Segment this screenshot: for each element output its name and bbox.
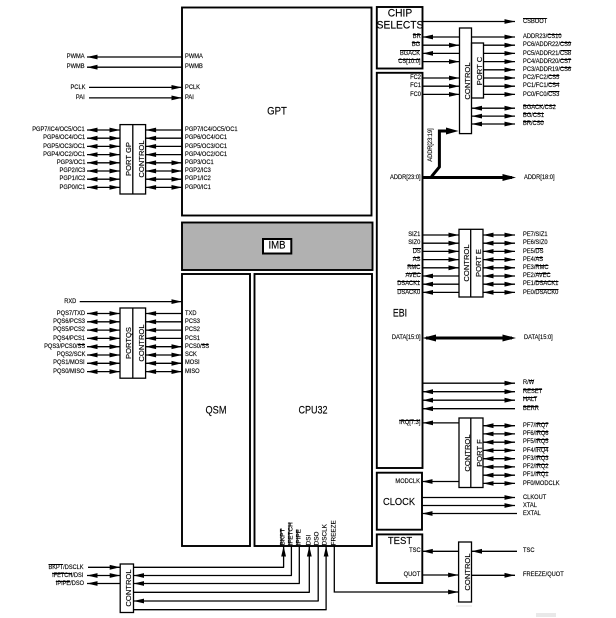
pin label PQS4/PCS1 (internal) <box>185 334 200 344</box>
pin label PF5/IRQ5 <box>523 437 548 447</box>
pin label PWMA (external) <box>67 52 85 62</box>
pin label IFETCH (CPU32, rotated) <box>288 522 294 545</box>
wire DSACK0 (EBI to control) <box>423 291 460 293</box>
wire PQS6/PCS3 (QSM segment) <box>146 321 182 323</box>
wire XTAL <box>422 505 515 507</box>
control box (port C) <box>460 28 472 134</box>
rotated label CONTROL (port GP) <box>138 141 146 178</box>
wire PQS7/TXD (external segment) <box>87 313 120 315</box>
wire PGP1/IC2 (GPT segment) <box>146 178 182 180</box>
pin label PCLK (external) <box>70 83 85 93</box>
pin label PGP0/IC1 (external) <box>59 183 85 193</box>
wire FC1 <box>423 85 460 87</box>
wire BKPT (vertical drop) <box>283 546 285 567</box>
rotated label PORT C <box>476 56 484 84</box>
wire PGP4/OC2/OC1 (GPT segment) <box>146 154 182 156</box>
bus label ADDR[23:19] (vertical) <box>427 129 434 162</box>
block EBI <box>377 73 423 468</box>
wire PGP3/OC1 (external segment) <box>87 162 120 164</box>
wire TSC (external) <box>472 550 518 552</box>
wire PF4/IRQ4 (external) <box>483 449 515 451</box>
pin label PQS0/MISO (external) <box>53 367 85 377</box>
rotated label CONTROL (port QS) <box>138 325 146 362</box>
pin label IPIPE (CPU32, rotated) <box>296 529 302 545</box>
wire PGP2/IC3 (external segment) <box>87 170 120 172</box>
label EBI <box>393 308 407 320</box>
wire PGP0/IC1 (external segment) <box>87 186 120 188</box>
wire DSO (horizontal run) <box>134 600 319 602</box>
pin label PGP5/OC3/OC1 (external) <box>43 142 85 152</box>
wire DSI (vertical drop) <box>308 546 310 592</box>
wire PF6/IRQ6 (external) <box>483 433 515 435</box>
wire PQS4/PCS1 (external segment) <box>87 337 120 339</box>
wire CSBOOT <box>423 21 516 23</box>
pin label PF2/IRQ2 <box>523 462 548 472</box>
pin label BERR <box>523 404 539 414</box>
wire BKPT/DSCLK (external) <box>88 566 120 568</box>
pin label PC6/ADDR22/CS9 <box>523 40 571 50</box>
wire BR (chip selects to control) <box>423 36 460 38</box>
rotated label PORT E <box>476 249 484 277</box>
wire DS (EBI to control) <box>423 250 460 252</box>
wire FC2 <box>423 77 460 79</box>
pin label PQS4/PCS1 (external) <box>53 334 85 344</box>
pin label PC0/FC0/CS3 <box>523 90 559 100</box>
wire PQS3/PCS0/SS (external segment) <box>87 346 120 348</box>
wire PC1/FC1/CS4 (output) <box>484 85 516 87</box>
pin label AVEC (internal) <box>405 271 420 281</box>
wire PQS5/PCS2 (QSM segment) <box>146 329 182 331</box>
wire HALT <box>423 399 516 401</box>
pin label CSBOOT <box>523 17 547 27</box>
wire PQS2/SCK (external segment) <box>87 354 120 356</box>
label GPT <box>267 105 287 117</box>
pin label PQS3/PCS0/SS (external) <box>44 342 85 352</box>
label CPU32 <box>298 404 327 416</box>
pin label R/W <box>523 378 534 388</box>
pin label SIZ0 (internal) <box>408 238 420 248</box>
rotated label PORT QS <box>125 327 133 359</box>
wire PE0/DSACK0 (external) <box>483 291 515 293</box>
wire PC4/ADDR20/CS7 (output) <box>484 61 516 63</box>
pin label HALT <box>523 395 537 405</box>
wire PE1/DSACK1 (external) <box>483 283 515 285</box>
wire PQS0/MISO (external segment) <box>87 371 120 373</box>
pin label PWMA (internal) <box>185 52 203 62</box>
wire AS (EBI to control) <box>423 259 460 261</box>
block CPU32 <box>255 274 373 546</box>
wire PQS3/PCS0/SS (QSM segment) <box>146 346 182 348</box>
pin label IPIPE/DSO <box>55 579 83 589</box>
bus ADDR[23:0] (thick) <box>423 176 513 179</box>
wire PQS5/PCS2 (external segment) <box>87 329 120 331</box>
wire DSCLK (vertical drop) <box>325 546 327 610</box>
pin label PE5/DS <box>523 247 543 257</box>
rotated label CONTROL (port E) <box>464 245 472 282</box>
pin label PQS0/MISO (internal) <box>185 367 200 377</box>
pin label PF0/MODCLK <box>523 479 560 489</box>
block CLOCK <box>377 473 422 530</box>
label CHIP <box>388 7 412 19</box>
wire ADDR23/CS10 (output) <box>472 36 516 38</box>
pin label PE7/SIZ1 <box>523 230 548 240</box>
wire BGACK/CS2 <box>472 107 516 109</box>
pin label PGP7/IC4/OC5/OC1 (external) <box>32 125 85 135</box>
wire BR/CS0 <box>472 123 516 125</box>
pin label PC1/FC1/CS4 <box>523 81 559 91</box>
pin label PE1/DSACK1 <box>523 279 558 289</box>
rotated label CONTROL (port C) <box>464 62 472 99</box>
rotated label CONTROL (BDM) <box>126 570 134 607</box>
wire DSACK1 (EBI to control) <box>423 283 460 285</box>
pin label PQS6/PCS3 (external) <box>53 317 85 327</box>
wire RESET <box>423 391 516 393</box>
pin label CLKOUT <box>523 493 546 503</box>
wire PGP6/OC4/OC1 (external segment) <box>87 137 120 139</box>
wire R/W <box>423 382 516 384</box>
pin label PF1/IRQ1 <box>523 470 548 480</box>
wire PQS7/TXD (QSM segment) <box>146 313 182 315</box>
pin label PGP3/OC1 (internal) <box>185 158 214 168</box>
wire PF7/IRQ7 (external) <box>483 425 515 427</box>
pin label PQS2/SCK (internal) <box>185 350 197 360</box>
pin label DSACK1 (internal) <box>398 279 421 289</box>
wire PWMB <box>87 66 182 68</box>
wire PGP5/OC3/OC1 (external segment) <box>87 145 120 147</box>
wire TSC (test to control) <box>422 550 458 552</box>
pin label MODCLK (internal) <box>395 477 420 487</box>
pin label BKPT/DSCLK <box>48 563 83 573</box>
pin label PGP4/OC2/OC1 (external) <box>43 150 85 160</box>
pin label IRQ[7:3] (internal) <box>399 418 420 428</box>
pin label RXD (external) <box>64 297 76 307</box>
faint cropped caption fragment 1 <box>456 605 472 608</box>
wire PE3/RMC (external) <box>483 267 515 269</box>
wire BKPT (horizontal run) <box>134 566 285 568</box>
pin label CS[10:0] (internal) <box>398 57 420 67</box>
wire PGP2/IC3 (GPT segment) <box>146 170 182 172</box>
bus bar IMB <box>182 223 373 271</box>
wire PF2/IRQ2 (external) <box>483 466 515 468</box>
pin label SIZ1 (internal) <box>408 230 420 240</box>
wire PE6/SIZ0 (external) <box>483 242 515 244</box>
pin label PCLK (internal) <box>185 83 200 93</box>
pin label PAI (internal) <box>185 93 194 103</box>
pin label BG/CS1 <box>523 111 544 121</box>
pin label XTAL <box>523 501 537 511</box>
pin label PGP2/IC3 (internal) <box>185 166 211 176</box>
port box CONTROL/PORT E <box>459 229 483 297</box>
pin label PQS6/PCS3 (internal) <box>185 317 200 327</box>
block TEST <box>377 534 423 583</box>
wire IFETCH/DSI (external) <box>87 575 120 577</box>
wire PE5/DS (external) <box>483 250 515 252</box>
wire PC5/ADDR21/CS8 (output) <box>484 52 516 54</box>
wire IFETCH (horizontal run) <box>134 575 292 577</box>
pin label DSI (CPU32, rotated) <box>306 534 312 545</box>
label TEST <box>387 536 411 547</box>
pin label PGP7/IC4/OC5/OC1 (internal) <box>185 125 238 135</box>
port box PORT GP / CONTROL <box>120 125 146 194</box>
bus label DATA[15:0] (external) <box>524 333 553 343</box>
wire PWMA <box>87 56 182 58</box>
pin label PQS7/TXD (internal) <box>185 309 196 319</box>
port E divider <box>470 229 472 297</box>
pin label BGACK (internal) <box>400 49 420 59</box>
wire PE4/AS (external) <box>483 259 515 261</box>
bus label DATA[15:0] (internal) <box>392 333 421 343</box>
wire PGP1/IC2 (external segment) <box>87 178 120 180</box>
bus label ADDR[18:0] (external) <box>524 173 555 183</box>
pin label PQS3/PCS0/SS (internal) <box>185 342 209 352</box>
pin label PGP0/IC1 (internal) <box>185 183 211 193</box>
rotated label CONTROL (port F) <box>464 434 472 471</box>
bus branch ADDR[23:19] (thick) <box>432 131 453 177</box>
port GP divider <box>132 125 134 194</box>
pin label DSCLK (CPU32, rotated) <box>323 524 329 545</box>
pin label PGP1/IC2 (external) <box>59 174 85 184</box>
wire PGP4/OC2/OC1 (external segment) <box>87 154 120 156</box>
pin label PGP2/IC3 (external) <box>59 166 85 176</box>
pin label RESET <box>523 387 542 397</box>
pin label PF4/IRQ4 <box>523 446 548 456</box>
label IMB <box>269 240 286 252</box>
wire SIZ1 (EBI to control) <box>423 234 460 236</box>
wire PQS2/SCK (QSM segment) <box>146 354 182 356</box>
control box (test) <box>459 542 472 602</box>
pin label QUOT (internal) <box>404 570 421 580</box>
pin label PC5/ADDR21/CS8 <box>523 49 571 59</box>
pin label PE6/SIZ0 <box>523 238 548 248</box>
bus label ADDR[23:0] (internal) <box>390 173 421 183</box>
pin label AS (internal) <box>413 255 421 265</box>
wire PQS1/MOSI (QSM segment) <box>146 362 182 364</box>
pin label PF3/IRQ3 <box>523 454 548 464</box>
wire PQS6/PCS3 (external segment) <box>87 321 120 323</box>
pin label PE3/RMC <box>523 263 548 273</box>
wire BG (chip selects to control) <box>423 44 460 46</box>
wire PC3/ADDR19/CS6 (output) <box>484 69 516 71</box>
wire PAI <box>89 97 182 99</box>
pin label PE2/AVEC <box>523 271 551 281</box>
pin label PC2/FC2/CS5 <box>523 73 559 83</box>
pin label PF7/IRQ7 <box>523 421 548 431</box>
wire RMC (EBI to control) <box>423 267 460 269</box>
pin label PGP3/OC1 (external) <box>56 158 85 168</box>
wire IPIPE (vertical drop) <box>298 546 300 584</box>
wire PE2/AVEC (external) <box>483 275 515 277</box>
pin label PQS7/TXD (external) <box>57 309 85 319</box>
pin label BR/CS0 <box>523 119 544 129</box>
wire PC2/FC2/CS5 (output) <box>484 77 516 79</box>
pin label PQS1/MOSI (internal) <box>185 358 200 368</box>
wire IPIPE (horizontal run) <box>134 583 300 585</box>
label CLOCK <box>383 497 415 508</box>
wire PF5/IRQ5 (external) <box>483 441 515 443</box>
IMB label box <box>263 239 291 254</box>
pin label RMC (internal) <box>407 263 420 273</box>
wire BGACK (chip selects to control) <box>423 52 460 54</box>
wire IFETCH (vertical drop) <box>290 546 292 576</box>
wire PGP7/IC4/OC5/OC1 (GPT segment) <box>146 129 182 131</box>
wire PCLK <box>89 86 182 88</box>
pin label PGP4/OC2/OC1 (internal) <box>185 150 227 160</box>
pin label FREEZE (CPU32, rotated) <box>331 520 337 545</box>
pin label FC1 (internal) <box>410 81 421 91</box>
label QSM <box>205 404 226 416</box>
wire PC6/ADDR22/CS9 (output) <box>484 44 516 46</box>
pin label PWMB (external) <box>67 62 85 72</box>
rotated label PORT GP <box>125 142 133 176</box>
pin label PQS5/PCS2 (internal) <box>185 325 200 335</box>
pin label BGACK/CS2 <box>523 103 556 113</box>
pin label PAI (external) <box>76 93 85 103</box>
port box PORT C <box>472 43 484 98</box>
wire BG/CS1 <box>472 115 516 117</box>
port box CONTROL/PORT F <box>459 418 483 488</box>
pin label DS (internal) <box>413 247 421 257</box>
pin label TSC (internal) <box>409 546 420 556</box>
pin label PGP6/OC4/OC1 (internal) <box>185 133 227 143</box>
wire QUOT (test to control) <box>422 574 458 576</box>
block QSM <box>182 274 250 546</box>
wire PE7/SIZ1 (external) <box>483 234 515 236</box>
wire BERR <box>423 408 516 410</box>
pin label PGP6/OC4/OC1 (external) <box>43 133 85 143</box>
wire DSCLK (horizontal run) <box>134 609 327 611</box>
pin label DSO (CPU32, rotated) <box>315 531 321 545</box>
pin label PE0/DSACK0 <box>523 288 558 298</box>
wire FREEZE/QUOT (external) <box>472 574 516 576</box>
port F divider <box>470 418 472 488</box>
wire IRQ[7:3] <box>423 422 460 424</box>
wire IPIPE/DSO (external) <box>87 583 120 585</box>
bus DATA[15:0] (thick) <box>426 337 512 340</box>
wire PQS4/PCS1 (QSM segment) <box>146 337 182 339</box>
pin label PWMB (internal) <box>185 62 203 72</box>
wire PGP5/OC3/OC1 (GPT segment) <box>146 145 182 147</box>
wire PQS0/MISO (QSM segment) <box>146 371 182 373</box>
label SELECTS <box>376 20 423 32</box>
pin label PC4/ADDR20/CS7 <box>523 57 571 67</box>
pin label PQS2/SCK (external) <box>56 350 85 360</box>
pin label FC2 (internal) <box>410 73 421 83</box>
wire PC0/FC0/CS3 (output) <box>484 93 516 95</box>
control box (BDM, bottom left) <box>120 564 133 613</box>
wire SIZ0 (EBI to control) <box>423 242 460 244</box>
pin label TSC (external) <box>523 546 534 556</box>
pin label BKPT (CPU32, rotated) <box>280 528 286 545</box>
pin label BG (internal) <box>412 40 420 50</box>
wire FREEZE (vertical drop + run to test control) <box>334 546 449 592</box>
rotated label PORT F <box>476 439 484 467</box>
pin label PGP5/OC3/OC1 (internal) <box>185 142 227 152</box>
wire CS[10:0] (chip selects to control) <box>423 61 460 63</box>
wire PF3/IRQ3 (external) <box>483 458 515 460</box>
wire PGP0/IC1 (GPT segment) <box>146 186 182 188</box>
wire PGP6/OC4/OC1 (GPT segment) <box>146 137 182 139</box>
pin label PQS5/PCS2 (external) <box>53 325 85 335</box>
port box PORT QS / CONTROL <box>120 308 146 378</box>
wire FC0 <box>423 93 460 95</box>
wire DSI (horizontal run) <box>134 591 310 593</box>
wire MODCLK <box>422 481 459 483</box>
wire RXD <box>80 301 182 303</box>
wire AVEC (EBI to control) <box>423 275 460 277</box>
pin label FREEZE/QUOT <box>523 570 564 580</box>
wire PGP3/OC1 (GPT segment) <box>146 162 182 164</box>
wire PF1/IRQ1 (external) <box>483 474 515 476</box>
wire EXTAL <box>422 513 517 515</box>
pin label BR (internal) <box>413 32 421 42</box>
pin label IFETCH/DSI <box>52 571 83 581</box>
faint cropped caption fragment 2 <box>536 613 556 617</box>
pin label PGP1/IC2 (internal) <box>185 174 211 184</box>
pin label DSACK0 (internal) <box>398 288 421 298</box>
block CHIP SELECTS <box>377 7 423 69</box>
wire CLKOUT <box>422 497 515 499</box>
pin label FC0 (internal) <box>410 90 421 100</box>
port QS divider <box>132 308 134 378</box>
pin label PC3/ADDR19/CS6 <box>523 65 571 75</box>
pin label PF6/IRQ6 <box>523 429 548 439</box>
pin label PQS1/MOSI (external) <box>53 358 85 368</box>
pin label PE4/AS <box>523 255 543 265</box>
pin label ADDR23/CS10 <box>523 32 562 42</box>
wire PF0/MODCLK (external) <box>483 482 515 484</box>
wire PGP7/IC4/OC5/OC1 (external segment) <box>87 129 120 131</box>
rotated label CONTROL (test) <box>464 553 472 590</box>
wire PQS1/MOSI (external segment) <box>87 362 120 364</box>
block GPT <box>182 8 372 216</box>
pin label EXTAL <box>523 509 541 519</box>
wire DSO (vertical drop) <box>317 546 319 601</box>
